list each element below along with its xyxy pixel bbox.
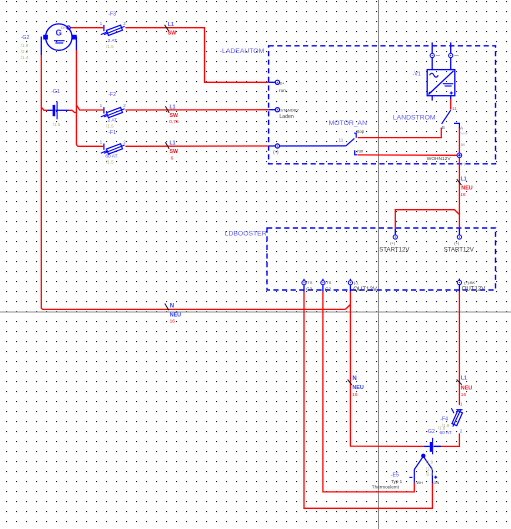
svg-text:SW: SW	[168, 30, 176, 36]
wire V1 plus to switch pin 11	[450, 99, 452, 110]
svg-text:stop: stop	[356, 129, 365, 134]
svg-text:2: 2	[460, 428, 463, 433]
svg-text:L1: L1	[168, 22, 174, 28]
battery G1	[48, 101, 69, 119]
black box LADEAUTOM	[220, 46, 496, 164]
page break line horizontal	[0, 311, 511, 313]
wire OUT12V plus down to F4	[458, 291, 460, 405]
svg-text:60 AT: 60 AT	[440, 430, 452, 436]
fuse F4	[451, 408, 462, 426]
svg-text:16: 16	[352, 392, 358, 398]
svg-text:OUT12V: OUT12V	[462, 286, 487, 293]
svg-text:NEU: NEU	[352, 385, 363, 391]
wire battery G2 to F4	[434, 433, 460, 446]
svg-text:-V1: -V1	[413, 71, 421, 77]
switch MOTOR_AN	[346, 133, 357, 155]
svg-text:MOTOR_AN: MOTOR_AN	[329, 120, 367, 127]
svg-text:D+: D+	[61, 26, 67, 30]
terminal OUT12V plus	[457, 279, 461, 292]
fuse F1	[101, 144, 125, 155]
svg-text:L1: L1	[170, 141, 176, 147]
node label N NEU 16 on OUT12V minus wire	[348, 376, 364, 398]
svg-text:run: run	[279, 88, 286, 94]
svg-text:G2: G2	[306, 286, 313, 291]
svg-text:11: 11	[339, 138, 344, 143]
wire A contact down to WOHN12V node	[458, 128, 460, 153]
svg-text:16: 16	[170, 319, 176, 325]
svg-text:/1.5: /1.5	[106, 123, 114, 128]
svg-text:NEU: NEU	[461, 385, 472, 391]
svg-text:/1.4: /1.4	[21, 55, 29, 60]
svg-text:/1.5: /1.5	[106, 44, 114, 49]
svg-text:-G2: -G2	[21, 35, 30, 41]
wire OUT12V minus down	[350, 291, 423, 446]
svg-text:START12V: START12V	[379, 247, 410, 254]
generator G2	[41, 24, 76, 55]
page break line vertical	[378, 0, 380, 529]
svg-text:-G1: -G1	[51, 89, 60, 95]
svg-text:GN: GN	[434, 481, 440, 485]
svg-text:WOHN12V: WOHN12V	[427, 156, 452, 162]
thermoelement E5	[409, 454, 437, 483]
node label L1 NEU 16 below WOHN12V	[457, 177, 473, 198]
wire F1 out to plus terminal	[125, 145, 268, 147]
node label L1 NEU 16 on OUT12V plus wire	[457, 375, 473, 398]
node label N NEU 16 on N bus	[165, 303, 181, 324]
terminal TS 2	[321, 279, 325, 292]
svg-text:2: 2	[123, 139, 126, 144]
wire battery G1 row left	[41, 107, 47, 110]
svg-text:(+): (+)	[454, 240, 460, 245]
svg-text:(-): (-)	[354, 280, 359, 285]
svg-text:B: B	[442, 125, 445, 130]
svg-text:run B: run B	[460, 131, 468, 135]
svg-text:L1: L1	[461, 177, 467, 183]
svg-text:1: 1	[100, 139, 103, 144]
black box LDBOOSTER	[225, 228, 496, 290]
svg-text:-F4: -F4	[440, 417, 448, 423]
terminal plus input	[275, 144, 279, 148]
svg-text:Thermoelemt: Thermoelemt	[372, 484, 400, 489]
svg-text:(+): (+)	[390, 240, 396, 245]
wire T1 TS down and around to GN	[304, 291, 432, 508]
svg-text:/1.5: /1.5	[53, 122, 61, 127]
wire plus to motor switch	[269, 145, 346, 147]
wire T2 TS down and around to WH	[323, 291, 414, 492]
svg-text:TS: TS	[308, 281, 313, 285]
node label L1 SW 0,75 on F2 wire	[165, 105, 179, 125]
wire F1 row	[78, 145, 104, 147]
svg-text:/1.9: /1.9	[438, 426, 446, 431]
svg-text:2: 2	[123, 21, 126, 26]
svg-text:SW: SW	[170, 149, 178, 155]
battery G2	[424, 438, 441, 455]
svg-text:2: 2	[123, 103, 126, 108]
svg-text:11: 11	[452, 106, 457, 111]
svg-text:/2.9: /2.9	[21, 49, 29, 54]
svg-text:D+: D+	[280, 81, 285, 85]
node label L1 SW on F3 wire	[165, 22, 177, 36]
svg-text:L1: L1	[170, 105, 176, 111]
V1 top terminals	[430, 42, 453, 69]
svg-text:START12V: START12V	[444, 247, 475, 254]
svg-text:1: 1	[100, 103, 103, 108]
svg-text:1: 1	[460, 401, 463, 406]
terminal run on box edge	[269, 80, 280, 84]
svg-text:(+):BK: (+):BK	[464, 281, 475, 285]
svg-text:NEU: NEU	[461, 185, 472, 191]
wire D+ to F3	[70, 27, 103, 29]
svg-text:Laden: Laden	[279, 114, 294, 120]
wire minus bus left	[41, 55, 345, 309]
svg-text:/1.9: /1.9	[426, 460, 434, 465]
wire N bus 45 stub	[345, 305, 350, 310]
fuse F2	[101, 107, 125, 118]
svg-text:-E5: -E5	[391, 472, 399, 478]
svg-text:LDBOOSTER: LDBOOSTER	[225, 231, 267, 238]
terminal START12V left	[393, 228, 397, 239]
wire branch to left START12V	[395, 210, 459, 229]
terminal WOHN12V	[457, 153, 462, 158]
svg-text:WH: WH	[417, 481, 424, 485]
svg-text:NEU: NEU	[170, 313, 181, 319]
wire F2 out to STANDBY terminal	[125, 109, 268, 111]
svg-text:/1.9: /1.9	[21, 43, 29, 48]
fuse F3	[101, 25, 125, 36]
svg-text:0,75: 0,75	[169, 119, 179, 125]
wire branch to F2	[76, 105, 103, 110]
svg-text:-F1: -F1	[108, 130, 116, 136]
svg-text:G2: G2	[325, 286, 332, 291]
svg-text:LANDSTROM: LANDSTROM	[393, 115, 436, 122]
wire F3 out to corner	[125, 28, 268, 83]
svg-text:L1: L1	[461, 375, 467, 381]
terminal TS 1	[302, 279, 306, 292]
wire run to WOHN12V	[358, 154, 457, 156]
svg-text:-F2: -F2	[108, 92, 116, 98]
svg-text:run: run	[357, 149, 364, 154]
svg-text:OUT12V: OUT12V	[353, 286, 378, 293]
wire stop to B contact	[358, 128, 442, 138]
terminal OUT12V minus	[348, 279, 352, 292]
switch LANDSTROM	[442, 110, 460, 128]
svg-text:/2.4: /2.4	[426, 471, 434, 476]
svg-text:1: 1	[100, 21, 103, 26]
svg-text:SW: SW	[170, 113, 178, 119]
svg-text:16: 16	[461, 392, 467, 398]
svg-text:STANDBY: STANDBY	[280, 107, 299, 112]
svg-text:-LADEAUTOM: -LADEAUTOM	[220, 48, 265, 55]
terminal START12V right	[457, 228, 461, 239]
svg-text:(+): (+)	[273, 149, 279, 154]
converter V1	[427, 70, 455, 101]
svg-text:/1.5: /1.5	[106, 160, 114, 165]
wire battery G1 row right	[69, 110, 77, 112]
svg-text:TS: TS	[326, 281, 331, 285]
svg-text:BK: BK	[461, 143, 466, 147]
node label L1 SW 6 on F1 wire	[165, 141, 178, 162]
svg-text:N: N	[170, 303, 174, 309]
terminal STANDBY Laden	[269, 108, 280, 112]
wire generator plus down	[76, 50, 77, 146]
svg-text:N: N	[352, 376, 356, 382]
wire WOHN12V down to START12V	[458, 158, 460, 229]
svg-text:16: 16	[460, 192, 466, 198]
svg-text:6: 6	[171, 155, 174, 161]
svg-text:-F3: -F3	[108, 12, 116, 18]
svg-text:-G2: -G2	[426, 429, 435, 435]
svg-text:(+): (+)	[461, 162, 466, 166]
